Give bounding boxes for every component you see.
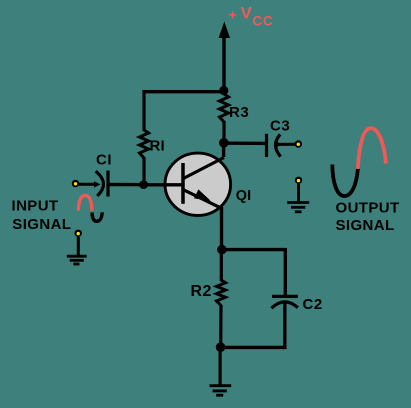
Vcc supply arrow <box>219 22 230 92</box>
resistor R2 <box>217 280 226 306</box>
svg-text:CC: CC <box>253 14 274 29</box>
svg-text:INPUT: INPUT <box>12 198 59 215</box>
wire C3 to output terminal <box>278 143 295 146</box>
wire collector to transistor <box>222 142 225 157</box>
svg-text:OUTPUT: OUTPUT <box>336 200 400 217</box>
wire output ground stem <box>297 184 300 203</box>
svg-text:C2: C2 <box>303 296 323 313</box>
svg-text:RI: RI <box>150 138 165 155</box>
svg-text:C3: C3 <box>270 118 290 135</box>
capacitor C3 <box>267 134 283 157</box>
resistor R1 <box>140 130 149 158</box>
wire C2 bottom lead <box>283 304 286 348</box>
transistor Q1 <box>145 153 231 215</box>
svg-text:R3: R3 <box>229 104 249 121</box>
wire emitter node to C2 branch <box>222 248 287 296</box>
wire emitter down <box>220 207 223 250</box>
junction at base node <box>139 180 148 189</box>
wire input ground stem <box>77 237 80 256</box>
ground (input) <box>67 256 87 264</box>
svg-text:V: V <box>241 4 253 23</box>
input terminal <box>72 180 79 187</box>
wire bottom horizontal <box>221 346 287 349</box>
output ground terminal <box>295 177 302 184</box>
capacitor C2 <box>271 296 297 308</box>
resistor R3 leads <box>222 90 225 143</box>
wire top horizontal from R1 to Vcc line <box>143 90 225 93</box>
wire R1 branch vertical <box>142 90 145 185</box>
junction at Vcc / R1 feed <box>219 86 228 95</box>
svg-text:QI: QI <box>236 188 251 204</box>
resistor R2 leads <box>219 250 223 347</box>
label +Vcc <box>229 4 274 29</box>
svg-text:+: + <box>229 7 237 23</box>
wire bottom ground stem <box>219 347 222 386</box>
ground (bottom) <box>210 386 232 396</box>
resistor R3 <box>220 94 229 122</box>
wire collector node to C3 <box>224 141 266 145</box>
output terminal <box>295 140 302 147</box>
junction at collector node <box>219 138 229 148</box>
svg-text:SIGNAL: SIGNAL <box>336 217 395 234</box>
svg-text:CI: CI <box>96 152 112 169</box>
svg-text:SIGNAL: SIGNAL <box>12 216 71 233</box>
svg-text:R2: R2 <box>191 283 212 300</box>
wire C1 to base junction <box>108 183 144 187</box>
input signal waveform <box>78 195 102 221</box>
junction at bottom ground node <box>216 342 226 352</box>
junction at emitter node <box>217 245 227 255</box>
input ground terminal <box>75 230 82 237</box>
ground (output) <box>287 203 309 212</box>
capacitor C1 <box>96 171 108 197</box>
wire input terminal to C1 <box>78 181 101 187</box>
output signal waveform <box>332 128 386 196</box>
